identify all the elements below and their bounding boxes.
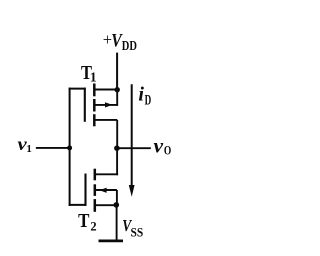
input label v1 bbox=[18, 134, 32, 155]
svg-text:T: T bbox=[78, 210, 90, 232]
transistor T1 channel segment drain bbox=[93, 84, 96, 97]
ground bar VSS bbox=[99, 239, 124, 242]
wire VDD to body T1 bbox=[116, 90, 118, 106]
wire output to vO bbox=[117, 147, 151, 149]
wire T2 source lead bbox=[95, 204, 117, 206]
transistor T1 gate bar bbox=[84, 88, 86, 122]
svg-text:i: i bbox=[138, 84, 144, 106]
current arrow iD head bbox=[129, 185, 135, 197]
wire gate bus vertical bbox=[69, 88, 71, 206]
wire T1 body lead with arrow bbox=[94, 104, 117, 106]
power label VSS bbox=[122, 216, 143, 239]
transistor T2 label bbox=[78, 210, 97, 234]
wire T1 gate from bus bbox=[69, 88, 86, 90]
wire T2 gate from bus bbox=[69, 204, 87, 206]
wire T2 body down to VSS node bbox=[116, 190, 118, 205]
current arrow iD line bbox=[131, 84, 133, 188]
wire VSS vertical bbox=[116, 205, 118, 241]
output label vO bbox=[154, 134, 172, 158]
node dot drain T1 / VDD bbox=[115, 87, 120, 92]
arrow T2 body pointing left bbox=[100, 188, 107, 193]
transistor T2 gate bar bbox=[84, 174, 86, 206]
svg-text:1: 1 bbox=[26, 143, 32, 155]
wire T1 source lead bbox=[94, 119, 117, 121]
transistor T2 channel segment body bbox=[94, 184, 97, 196]
wire input v1 bbox=[36, 147, 70, 149]
svg-text:SS: SS bbox=[131, 225, 144, 239]
svg-text:O: O bbox=[164, 144, 172, 158]
wire VDD vertical bbox=[116, 53, 118, 90]
transistor T1 channel segment body bbox=[93, 99, 96, 112]
wire T1 source down to output bbox=[116, 120, 118, 148]
svg-text:v: v bbox=[154, 134, 164, 158]
node dot output bbox=[114, 145, 120, 151]
svg-text:1: 1 bbox=[90, 69, 97, 84]
power label +VDD bbox=[103, 30, 137, 53]
transistor T1 channel segment source bbox=[93, 114, 96, 126]
transistor T1 label bbox=[81, 62, 97, 84]
transistor T2 channel segment source bbox=[94, 199, 97, 212]
svg-text:2: 2 bbox=[90, 220, 96, 234]
node dot VSS junction bbox=[114, 202, 120, 208]
wire output down to T2 drain bbox=[116, 148, 118, 175]
wire T2 body lead with arrow bbox=[96, 189, 117, 191]
svg-text:DD: DD bbox=[122, 38, 137, 53]
transistor T2 channel segment drain bbox=[94, 169, 97, 181]
arrow T1 body pointing right bbox=[105, 102, 113, 107]
wire T2 drain lead bbox=[95, 173, 118, 175]
node dot input junction bbox=[67, 145, 72, 150]
svg-text:D: D bbox=[145, 93, 152, 109]
wire T1 drain lead bbox=[94, 89, 117, 91]
current label iD bbox=[138, 84, 151, 109]
